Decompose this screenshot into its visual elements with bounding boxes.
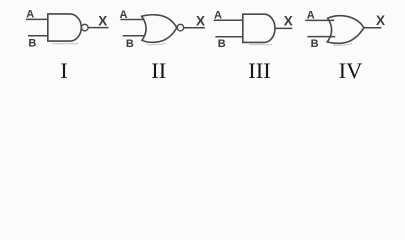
svg-text:X: X (98, 13, 107, 28)
wire B to gate III (215, 36, 242, 38)
svg-text:B: B (126, 38, 134, 50)
wire B to gate IV (307, 36, 335, 38)
wire B to gate I (28, 35, 48, 37)
scan ghost under gate IV bottom (333, 44, 352, 46)
AND gate U3 body (243, 14, 275, 42)
wire gate I output (88, 27, 108, 29)
svg-text:B: B (28, 38, 36, 50)
svg-text:B: B (218, 38, 226, 50)
svg-text:X: X (284, 14, 293, 29)
NAND gate U1 body (48, 14, 81, 41)
scan ghost under gate II bottom (147, 44, 166, 45)
NOR gate U2 inversion bubble (177, 24, 184, 31)
svg-text:I: I (60, 58, 68, 83)
NAND gate U1 inversion bubble (82, 24, 89, 31)
NOR gate U2 body (142, 15, 177, 43)
wire A to gate IV (305, 19, 334, 21)
wire gate II output (184, 27, 205, 29)
wire A to gate III (214, 19, 243, 21)
wire gate III output (275, 27, 292, 29)
wire gate IV output (365, 27, 382, 29)
svg-text:X: X (376, 13, 385, 28)
svg-text:II: II (151, 58, 166, 83)
svg-text:B: B (311, 38, 319, 50)
svg-text:III: III (248, 58, 270, 83)
wire A to gate II (120, 19, 144, 21)
scan ghost under gate III bottom (249, 44, 272, 46)
svg-text:X: X (196, 14, 205, 29)
wire A to gate I (26, 18, 48, 20)
svg-text:IV: IV (339, 58, 363, 83)
OR gate U4 body (327, 16, 364, 44)
wire B to gate II (123, 35, 145, 37)
scan ghost under gate I bottom (52, 43, 78, 45)
